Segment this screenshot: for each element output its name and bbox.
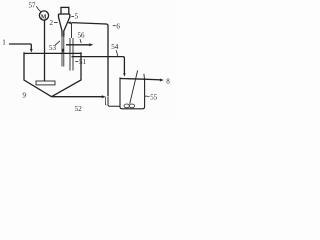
arrowhead into cyclone <box>67 21 71 24</box>
label 54 <box>111 43 119 51</box>
cyclone C1 body and cone <box>59 14 70 37</box>
svg-text:8: 8 <box>166 78 170 86</box>
label 53 <box>49 44 57 52</box>
leader for 57 <box>36 6 40 11</box>
underflow arrowhead <box>62 49 65 53</box>
tank 9 rim / level line <box>24 52 81 54</box>
stirrer propeller <box>124 104 129 108</box>
cyclone underflow pipe (to tank 9) <box>62 37 64 67</box>
feed line 1 <box>9 44 31 50</box>
arrowhead 8 <box>160 79 164 82</box>
label 6 <box>116 23 120 31</box>
cyclone C1 vortex finder <box>61 7 69 14</box>
leader dash for 5 <box>71 16 74 18</box>
leader for 54 <box>116 50 118 56</box>
leader dash for 51 <box>75 61 78 63</box>
svg-text:55: 55 <box>150 94 158 102</box>
outlet line 8 <box>145 78 161 81</box>
svg-text:1: 1 <box>2 39 6 47</box>
svg-text:9: 9 <box>23 92 27 100</box>
label 8 <box>166 78 170 86</box>
label 55 <box>150 94 158 102</box>
label 52 <box>75 105 83 113</box>
svg-text:2: 2 <box>50 19 54 27</box>
svg-text:54: 54 <box>111 43 119 51</box>
svg-text:56: 56 <box>78 32 86 40</box>
svg-text:51: 51 <box>79 58 87 66</box>
arrowhead pipe 54 into tank 55 <box>123 73 126 76</box>
transfer pipe 54 (tank 9 to tank 55) <box>72 57 125 75</box>
tank 9 (mixing tank with conical bottom) <box>24 52 81 96</box>
recirculation top line (to cyclone feed) <box>72 23 109 97</box>
svg-text:5: 5 <box>75 13 79 21</box>
svg-text:M: M <box>41 14 47 20</box>
arrowhead 52 <box>102 95 106 98</box>
motor M1 (circle with mark) <box>39 11 48 20</box>
svg-text:52: 52 <box>75 105 83 113</box>
stream 56 arrow <box>66 44 91 46</box>
label 5 <box>75 13 79 21</box>
agitator paddle <box>36 81 55 85</box>
svg-text:6: 6 <box>116 23 120 31</box>
tank 55 vessel <box>120 77 145 108</box>
leader for 53 <box>55 41 60 46</box>
riser bottom second wall <box>105 97 106 105</box>
branch pipe down into tank 9 (dip tube 51) <box>70 23 73 71</box>
label 2 <box>50 19 54 27</box>
riser bottom elbow into tank 55 <box>108 97 120 107</box>
stirrer shaft in tank 55 <box>130 71 138 104</box>
label 57 <box>29 1 37 9</box>
arrowhead feed 1 <box>30 49 33 53</box>
label 1 <box>2 39 6 47</box>
leader dash for 2 <box>54 22 58 24</box>
label 51 <box>79 58 87 66</box>
leader dash for 6 <box>113 25 116 27</box>
bottoms line 52 from cone tip <box>52 96 104 98</box>
svg-text:57: 57 <box>29 1 37 9</box>
tank 55 rim / level line <box>120 78 145 81</box>
label 9 <box>23 92 27 100</box>
tank 55 right wall top tick <box>143 74 146 79</box>
agitator shaft <box>44 20 46 81</box>
label 56 <box>78 32 86 40</box>
tilde leader for 55 <box>145 95 150 98</box>
leader for 56 <box>80 39 81 43</box>
